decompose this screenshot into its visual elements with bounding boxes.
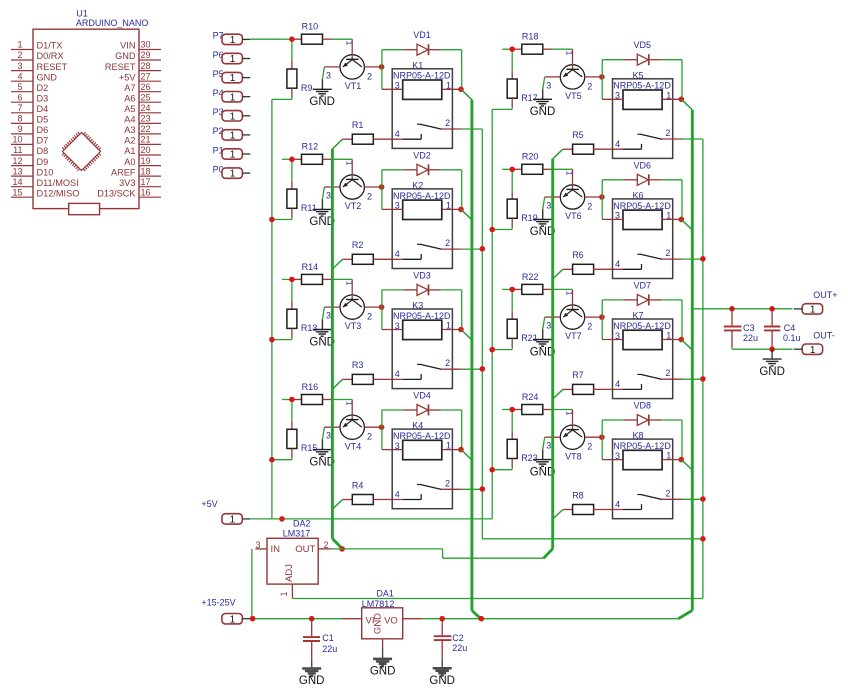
svg-text:1: 1 [230,111,236,122]
svg-text:K2: K2 [412,181,423,191]
svg-text:3: 3 [546,321,551,331]
svg-text:NRP05-A-12D: NRP05-A-12D [393,191,451,201]
svg-text:VD1: VD1 [413,30,431,40]
svg-text:C3: C3 [743,323,755,333]
svg-text:13: 13 [12,166,22,176]
svg-text:K4: K4 [412,421,423,431]
svg-text:VIN: VIN [120,41,135,51]
svg-text:D9: D9 [37,157,49,167]
svg-text:6: 6 [17,93,22,103]
svg-text:R20: R20 [522,152,539,162]
svg-text:4: 4 [615,139,620,149]
svg-text:ARDUINO_NANO: ARDUINO_NANO [76,18,149,28]
svg-text:22u: 22u [452,643,467,653]
svg-text:VT6: VT6 [565,211,582,221]
svg-text:7: 7 [17,103,22,113]
svg-text:R14: R14 [302,262,319,272]
svg-text:DA1: DA1 [376,588,394,598]
svg-text:NRP05-A-12D: NRP05-A-12D [613,81,671,91]
svg-text:22: 22 [141,124,151,134]
svg-text:D7: D7 [37,136,49,146]
svg-text:R16: R16 [302,382,319,392]
svg-text:16: 16 [141,187,151,197]
svg-text:10: 10 [12,135,22,145]
svg-text:30: 30 [141,40,151,50]
svg-text:2: 2 [445,478,450,488]
svg-text:R15: R15 [301,443,318,453]
svg-text:VT2: VT2 [345,201,362,211]
svg-text:R7: R7 [572,370,584,380]
svg-text:VD4: VD4 [413,391,431,401]
svg-text:+5V: +5V [201,499,217,509]
svg-text:AREF: AREF [111,167,136,177]
svg-text:21: 21 [141,135,151,145]
svg-text:8: 8 [17,114,22,124]
svg-text:R4: R4 [352,480,364,490]
svg-text:R24: R24 [522,392,539,402]
svg-text:R5: R5 [572,130,584,140]
svg-text:VT5: VT5 [565,91,582,101]
svg-text:D12/MISO: D12/MISO [37,188,80,198]
svg-text:1: 1 [279,591,289,596]
svg-text:A5: A5 [124,104,135,114]
svg-text:A1: A1 [124,146,135,156]
svg-text:2: 2 [445,118,450,128]
svg-text:3: 3 [615,91,620,101]
svg-text:+15-25V: +15-25V [201,597,235,607]
svg-text:R2: R2 [352,240,364,250]
svg-text:R11: R11 [301,203,317,213]
svg-text:2: 2 [665,368,670,378]
svg-text:+5V: +5V [119,72,136,82]
svg-text:VT4: VT4 [345,441,362,451]
svg-text:19: 19 [141,156,151,166]
svg-text:3: 3 [326,431,331,441]
svg-text:RESET: RESET [105,62,136,72]
svg-text:3: 3 [546,201,551,211]
svg-text:2: 2 [367,192,372,202]
svg-text:18: 18 [141,166,151,176]
svg-text:K6: K6 [633,191,644,201]
svg-text:R1: R1 [352,120,364,130]
svg-text:25: 25 [141,93,151,103]
svg-text:VD8: VD8 [634,401,652,411]
svg-text:9: 9 [17,124,22,134]
svg-text:4: 4 [615,379,620,389]
svg-text:GND: GND [373,613,384,634]
svg-text:R17: R17 [521,93,538,103]
svg-text:2: 2 [445,358,450,368]
svg-text:D10: D10 [37,167,54,177]
svg-text:VO: VO [384,616,398,627]
svg-text:3: 3 [615,331,620,341]
svg-text:C2: C2 [452,633,464,643]
svg-text:1: 1 [230,515,236,526]
svg-text:LM317: LM317 [283,528,311,538]
svg-text:K1: K1 [412,60,423,70]
svg-text:22u: 22u [322,644,337,654]
svg-text:R19: R19 [521,213,538,223]
svg-text:4: 4 [395,129,400,139]
svg-text:1: 1 [230,73,236,84]
svg-text:D1/TX: D1/TX [37,41,63,51]
svg-text:27: 27 [141,71,151,81]
svg-text:K7: K7 [633,311,644,321]
svg-text:NRP05-A-12D: NRP05-A-12D [393,431,451,441]
svg-text:R6: R6 [572,250,584,260]
svg-text:GND: GND [370,666,396,678]
svg-text:1: 1 [230,169,236,180]
svg-text:D2: D2 [37,83,49,93]
svg-text:GND: GND [309,96,335,108]
svg-text:D8: D8 [37,146,49,156]
svg-text:R9: R9 [301,83,313,93]
svg-text:20: 20 [141,145,151,155]
svg-text:4: 4 [615,499,620,509]
svg-text:2: 2 [665,128,670,138]
svg-text:3V3: 3V3 [119,178,135,188]
svg-text:29: 29 [141,50,151,60]
svg-text:VT1: VT1 [345,81,362,91]
svg-text:3: 3 [17,61,22,71]
svg-text:17: 17 [141,177,151,187]
svg-text:NRP05-A-12D: NRP05-A-12D [613,321,671,331]
svg-text:D0/RX: D0/RX [37,51,64,61]
svg-text:GND: GND [530,106,556,118]
svg-text:26: 26 [141,82,151,92]
svg-text:K3: K3 [412,301,423,311]
svg-text:DA2: DA2 [293,519,311,529]
svg-text:R23: R23 [521,453,538,463]
svg-text:28: 28 [141,61,151,71]
svg-text:GND: GND [115,51,136,61]
svg-text:2: 2 [17,50,22,60]
svg-text:OUT-: OUT- [813,331,835,341]
svg-text:GND: GND [37,72,58,82]
svg-text:2: 2 [587,202,592,212]
svg-text:A3: A3 [124,125,135,135]
svg-text:3: 3 [395,321,400,331]
svg-text:3: 3 [326,70,331,80]
svg-text:11: 11 [13,145,22,155]
svg-text:K5: K5 [633,70,644,80]
svg-text:1: 1 [230,150,236,161]
svg-text:VT3: VT3 [345,321,362,331]
svg-text:2: 2 [445,238,450,248]
svg-text:D4: D4 [37,104,49,114]
svg-text:4: 4 [395,369,400,379]
svg-text:A4: A4 [124,115,135,125]
svg-text:R13: R13 [301,323,318,333]
svg-text:3: 3 [395,81,400,91]
svg-text:GND: GND [429,675,455,687]
svg-text:1: 1 [230,92,236,103]
svg-text:D5: D5 [37,115,49,125]
svg-text:1: 1 [810,345,816,356]
svg-text:3: 3 [546,441,551,451]
svg-text:12: 12 [12,156,22,166]
svg-text:3: 3 [615,451,620,461]
svg-text:ADJ: ADJ [284,564,295,582]
svg-text:C1: C1 [322,633,334,643]
svg-text:3: 3 [326,191,331,201]
svg-text:2: 2 [665,248,670,258]
svg-text:R21: R21 [521,333,538,343]
svg-text:A6: A6 [124,94,135,104]
svg-text:VD7: VD7 [634,280,652,290]
svg-text:NRP05-A-12D: NRP05-A-12D [393,71,451,81]
svg-text:2: 2 [367,71,372,81]
svg-text:2: 2 [587,442,592,452]
svg-text:3: 3 [395,201,400,211]
svg-text:5: 5 [17,82,22,92]
svg-text:GND: GND [299,675,325,687]
svg-text:1: 1 [230,131,236,142]
svg-text:1: 1 [230,54,236,65]
svg-text:1: 1 [230,35,236,46]
svg-text:R22: R22 [522,272,539,282]
svg-text:K8: K8 [633,431,644,441]
svg-text:VD3: VD3 [413,270,431,280]
svg-text:0.1u: 0.1u [783,333,801,343]
svg-text:23: 23 [141,114,151,124]
svg-text:D13/SCK: D13/SCK [97,188,136,198]
svg-text:VT7: VT7 [565,331,582,341]
svg-text:1: 1 [17,40,22,50]
svg-text:IN: IN [271,544,281,555]
svg-text:A2: A2 [124,136,135,146]
svg-text:NRP05-A-12D: NRP05-A-12D [393,311,451,321]
svg-text:NRP05-A-12D: NRP05-A-12D [613,441,671,451]
svg-text:1: 1 [810,305,816,316]
svg-text:22u: 22u [743,333,758,343]
svg-text:1: 1 [230,614,236,625]
svg-text:2: 2 [587,322,592,332]
svg-text:R8: R8 [572,490,584,500]
svg-text:VD6: VD6 [634,160,652,170]
svg-text:4: 4 [615,259,620,269]
svg-text:4: 4 [395,489,400,499]
svg-text:2: 2 [367,312,372,322]
svg-text:24: 24 [141,103,151,113]
svg-text:VD5: VD5 [634,40,652,50]
svg-text:VD2: VD2 [413,150,431,160]
svg-text:3: 3 [326,311,331,321]
svg-text:R3: R3 [352,360,364,370]
svg-text:D6: D6 [37,125,49,135]
svg-text:OUT+: OUT+ [813,290,837,300]
svg-text:RESET: RESET [37,62,68,72]
svg-text:4: 4 [17,71,22,81]
svg-text:3: 3 [615,211,620,221]
svg-text:C4: C4 [784,323,796,333]
svg-text:NRP05-A-12D: NRP05-A-12D [613,201,671,211]
svg-text:4: 4 [395,249,400,259]
svg-text:2: 2 [367,432,372,442]
svg-text:R18: R18 [522,32,539,42]
svg-text:R12: R12 [302,142,319,152]
svg-text:15: 15 [12,187,22,197]
svg-text:R10: R10 [302,22,319,32]
svg-text:3: 3 [395,441,400,451]
svg-text:A7: A7 [124,83,135,93]
svg-text:D11/MOSI: D11/MOSI [37,178,79,188]
svg-text:GND: GND [759,366,785,378]
svg-text:VT8: VT8 [565,451,582,461]
svg-text:D3: D3 [37,94,49,104]
svg-text:14: 14 [12,177,22,187]
svg-text:3: 3 [546,80,551,90]
svg-text:2: 2 [665,488,670,498]
svg-text:2: 2 [587,81,592,91]
svg-text:OUT: OUT [295,544,315,555]
svg-text:A0: A0 [124,157,135,167]
